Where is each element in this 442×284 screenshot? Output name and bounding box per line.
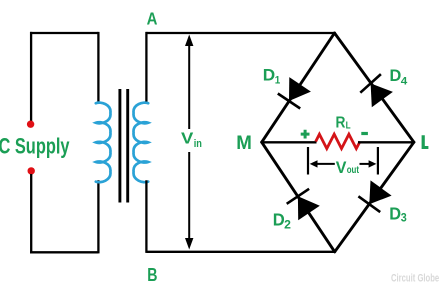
svg-text:in: in — [194, 138, 202, 150]
label: polarity plus — [301, 130, 310, 139]
Vin arrow upper segment with arrowhead — [188, 42, 190, 129]
wire: transformer primary bottom lead — [97, 180, 99, 253]
diode D2 cathode bar — [287, 189, 309, 204]
wire: AC loop left upper vertical — [30, 32, 32, 121]
svg-text:2: 2 — [284, 219, 291, 231]
Vin arrow lower segment with arrowhead — [188, 152, 190, 242]
diode D3 triangle — [369, 180, 391, 204]
wire: bridge arm A-L — [335, 33, 414, 142]
wire: top rail from secondary to bridge node A — [146, 32, 334, 34]
svg-text:D: D — [263, 66, 275, 84]
diode D4 triangle — [371, 83, 393, 107]
AC supply terminal dot (top) — [27, 121, 34, 128]
AC supply terminal dot (bottom) — [28, 167, 35, 174]
wire: M to load resistor — [263, 141, 317, 143]
svg-text:C Supply: C Supply — [0, 133, 70, 158]
diode D1 cathode bar — [278, 94, 300, 109]
label: node L — [422, 135, 429, 149]
svg-text:B: B — [147, 264, 157, 284]
wire: AC loop top horizontal — [30, 32, 98, 34]
wire: load resistor to L — [358, 141, 413, 143]
wire: AC loop left lower vertical — [30, 174, 32, 253]
wire: bottom rail from secondary to bridge bottom node — [146, 251, 334, 253]
diode D1 triangle — [289, 77, 311, 101]
transformer primary winding — [96, 103, 111, 183]
svg-text:1: 1 — [275, 75, 281, 87]
Vout dimension tick left — [307, 147, 309, 175]
transformer core line 2 — [126, 89, 129, 203]
wire: bridge arm M-bottom — [262, 142, 335, 252]
svg-text:R: R — [336, 114, 346, 131]
transformer secondary winding — [134, 103, 149, 183]
svg-text:Circuit Globe: Circuit Globe — [391, 272, 439, 284]
wire: transformer secondary bottom lead — [145, 180, 147, 253]
wire: bridge arm A-M — [262, 33, 335, 142]
wire: bridge arm L-bottom — [335, 142, 414, 252]
Vout arrow right — [360, 163, 372, 165]
Vout dimension tick right — [377, 147, 379, 175]
svg-text:L: L — [346, 120, 351, 132]
svg-text:D: D — [273, 209, 285, 229]
svg-text:V: V — [181, 131, 194, 148]
diode D4 cathode bar — [360, 74, 381, 93]
svg-text:V: V — [336, 159, 347, 177]
wire: AC loop bottom horizontal — [30, 251, 98, 253]
resistor RL zigzag — [316, 134, 360, 148]
svg-text:M: M — [236, 133, 252, 154]
diode D3 cathode bar — [358, 196, 380, 212]
svg-text:out: out — [347, 164, 360, 176]
label: polarity minus — [361, 132, 368, 135]
svg-text:A: A — [147, 9, 158, 29]
wire: transformer secondary top lead — [145, 32, 147, 102]
svg-text:D: D — [390, 67, 402, 85]
svg-text:D: D — [389, 203, 401, 223]
svg-text:4: 4 — [401, 76, 408, 88]
diode D2 triangle — [298, 196, 320, 220]
Vout arrow left — [315, 163, 335, 165]
wire: transformer primary top lead — [97, 32, 99, 102]
transformer core line 1 — [118, 89, 121, 203]
svg-text:3: 3 — [401, 212, 407, 224]
